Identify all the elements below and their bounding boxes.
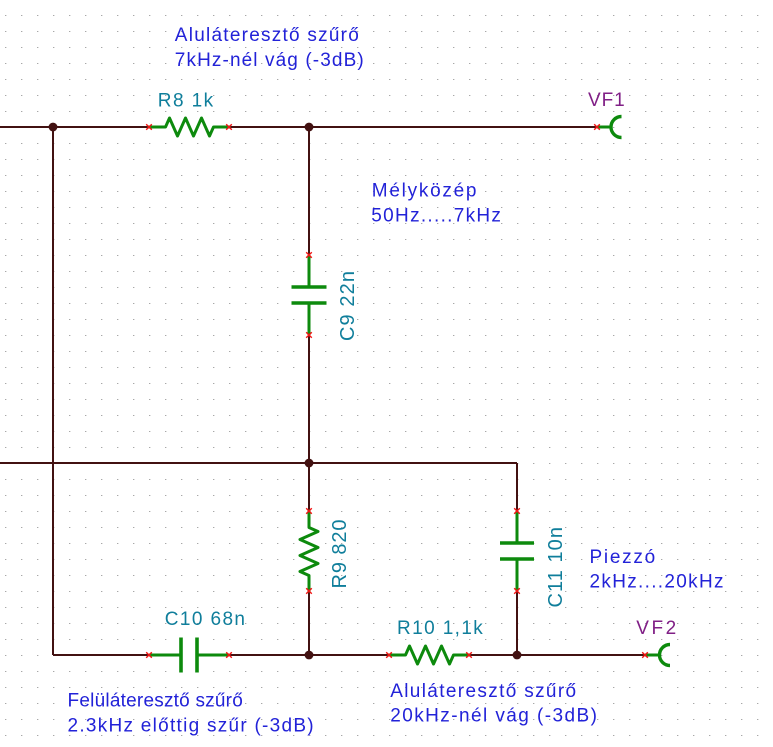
wire top-right horizontal [229,126,597,128]
junction C (309,463) [305,459,314,468]
junction D (309,655) [305,651,314,660]
pin marker x R8 right [226,124,232,130]
pin marker x C10 left [146,652,152,658]
svg-text:50Hz.....7kHz: 50Hz.....7kHz [371,206,501,227]
svg-text:7kHz-nél vág (-3dB): 7kHz-nél vág (-3dB) [175,50,364,71]
wire center vertical lower [308,591,310,655]
pin marker x VF1 [594,124,600,130]
wire middle horizontal [0,462,517,464]
note piezo band [590,547,724,593]
svg-text:C9 22n: C9 22n [337,271,359,341]
svg-text:Felüláteresztő szűrő: Felüláteresztő szűrő [68,691,243,712]
svg-text:R8 1k: R8 1k [158,90,214,111]
pin marker x C9 bottom [306,332,312,338]
wire left vertical [52,127,54,655]
junction B (309,127) [305,123,314,132]
svg-text:VF2: VF2 [636,618,676,639]
pin marker x C10 right [226,652,232,658]
svg-text:Mélyközép: Mélyközép [372,181,477,202]
connector VF1 [597,117,622,138]
note low-pass filter top [175,25,364,71]
note mid band [371,181,501,227]
resistor R8 [149,118,229,136]
pin marker x R10 left [386,652,392,658]
capacitor C11 [500,511,534,591]
wire center vertical upper [308,127,310,255]
wire right vertical upper [516,463,518,511]
svg-text:R9 820: R9 820 [329,520,351,589]
svg-text:C10 68n: C10 68n [165,609,245,630]
wire right vertical lower [516,591,518,655]
pin marker x R9 bottom [306,588,312,594]
note low-pass filter bottom-right [390,681,597,727]
wire center vertical mid [308,335,310,511]
resistor R9 [300,511,318,591]
wire top-left horizontal [0,126,149,128]
svg-text:20kHz-nél vág (-3dB): 20kHz-nél vág (-3dB) [390,706,597,727]
connector VF2 [645,645,670,666]
pin marker x VF2 [642,652,648,658]
svg-text:C11 10n: C11 10n [545,527,567,608]
pin marker x C11 bottom [514,588,520,594]
pin marker x R8 left [146,124,648,658]
svg-text:R10 1,1k: R10 1,1k [397,618,483,639]
wire bottom horizontal segment 3 [469,654,645,656]
note high-pass filter bottom-left [68,691,314,737]
svg-text:2.3kHz előttig szűr (-3dB): 2.3kHz előttig szűr (-3dB) [68,716,314,737]
wire bottom horizontal segment 1 [53,654,149,656]
pin marker x R9 top [306,508,312,514]
wire [0,127,645,655]
junction E (517,655) [513,651,522,660]
resistor R10 [389,646,469,664]
pin marker x C11 top [514,508,520,514]
capacitor C10 [149,638,229,673]
svg-text:Aluláteresztő szűrő: Aluláteresztő szűrő [390,681,576,702]
capacitor C9 [292,255,327,335]
svg-text:VF1: VF1 [588,90,625,111]
svg-text:Piezzó: Piezzó [590,547,656,568]
pin marker x C9 top [306,252,312,258]
junction A (53,127) [49,123,58,132]
svg-text:Aluláteresztő szűrő: Aluláteresztő szűrő [175,25,359,46]
pin marker x R10 right [466,652,472,658]
wire bottom horizontal segment 2 [229,654,389,656]
